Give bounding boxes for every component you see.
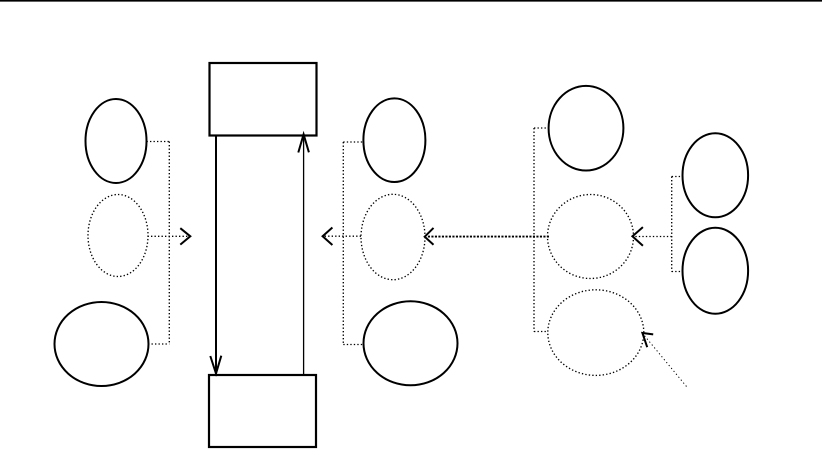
rectangle top — [210, 63, 317, 136]
arrowhead left pointing middle — [323, 228, 333, 246]
arrowhead up — [298, 134, 309, 152]
ellipse F1 solid far-right top — [683, 133, 749, 217]
wire right bracket vertical — [533, 128, 535, 332]
ellipse L1 solid top-left — [86, 99, 147, 183]
ellipse R2 dotted mid-right — [548, 195, 634, 279]
ellipse R1 solid top-right — [549, 86, 624, 171]
wire far-right bracket bottom stub — [672, 271, 683, 273]
arrowhead down — [210, 356, 221, 374]
arrowhead left pointing long — [425, 228, 434, 245]
wire left bracket bottom stub — [148, 343, 169, 345]
wire left bracket vertical — [168, 142, 170, 345]
top rule — [0, 0, 822, 2]
wire far-right dotted arrow shaft — [635, 236, 672, 238]
ellipse F2 solid far-right bottom — [683, 228, 749, 314]
ellipse R3 dotted bottom-right — [548, 290, 644, 376]
wire long bold dashed arrow shaft — [427, 236, 550, 238]
wire left dotted arrow shaft — [148, 235, 189, 237]
ellipse L3 solid bottom-left — [55, 302, 149, 386]
wire right bracket top stub — [534, 127, 549, 129]
wire middle dotted arrow shaft — [325, 235, 362, 237]
arrowhead diagonal up-left — [642, 333, 653, 347]
wire left bracket top stub — [147, 141, 170, 143]
arrowhead left pointing far-right — [632, 227, 643, 246]
wire far-right bracket vertical — [671, 177, 673, 272]
wire up arrow shaft — [303, 135, 305, 376]
wire right bracket bottom stub — [534, 331, 548, 333]
wire down arrow shaft — [215, 136, 217, 373]
wire diagonal dotted arrow shaft — [644, 335, 687, 387]
rectangle bottom — [209, 375, 316, 447]
wire middle bracket top stub — [343, 141, 363, 143]
wire far-right bracket top stub — [672, 176, 683, 178]
ellipse M1 solid top-middle — [363, 98, 425, 182]
ellipse M3 solid bottom-middle — [364, 301, 458, 385]
arrowhead right pointing — [180, 228, 190, 244]
wire middle bracket bottom stub — [343, 344, 363, 346]
ellipse M2 dotted mid-middle — [361, 194, 425, 279]
ellipse L2 dotted mid-left — [88, 195, 148, 277]
wire middle bracket vertical — [342, 142, 344, 345]
